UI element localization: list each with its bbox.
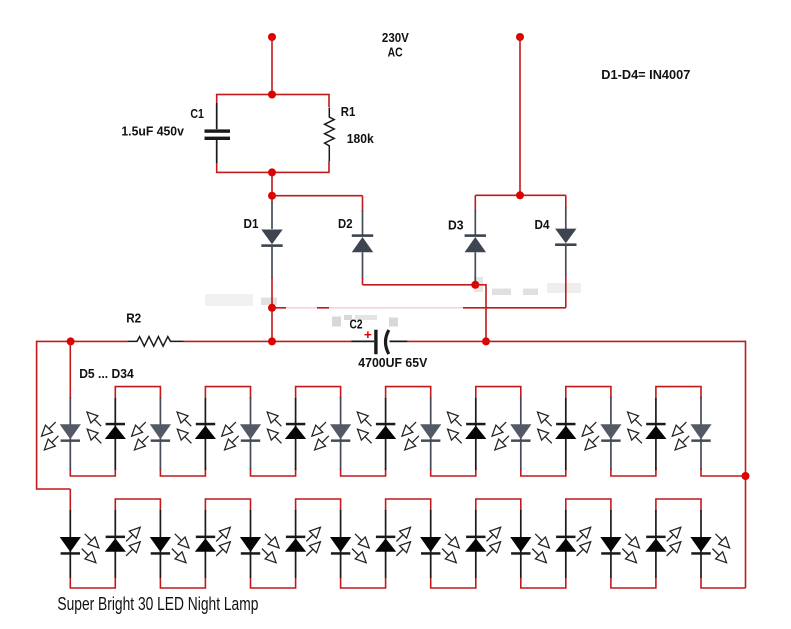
svg-text:4700UF 65V: 4700UF 65V [358, 355, 427, 370]
wire row2 top segment 11 [566, 499, 611, 511]
wire row1 top segment 13 [656, 387, 701, 399]
wire row1 feed [69, 341, 71, 399]
wire row2 bottom segment 8 [431, 578, 476, 588]
wire row2 feed top [69, 489, 71, 512]
svg-text:AC: AC [388, 44, 403, 59]
wire C1/R1 parallel box [217, 95, 329, 173]
svg-text:180k: 180k [347, 131, 375, 146]
LED D34 [690, 510, 733, 578]
wire row1 bottom segment 6 [341, 468, 386, 476]
LED D11 [308, 397, 351, 470]
LED D12 [354, 398, 396, 470]
svg-text:230V: 230V [382, 30, 409, 45]
diode D3 [465, 195, 486, 285]
wire box to bridge node [271, 172, 273, 203]
node AC terminal right [516, 33, 524, 41]
wire row2 bottom segment 2 [160, 578, 205, 588]
LED D7 [128, 397, 171, 470]
diode D2 [352, 196, 373, 279]
svg-text:Super Bright 30 LED Night Lamp: Super Bright 30 LED Night Lamp [57, 594, 258, 614]
capacitor C1 [205, 103, 231, 163]
svg-text:D1: D1 [244, 216, 259, 231]
wire row1 bottom segment 0 [70, 468, 115, 476]
node box bottom [268, 168, 276, 176]
wire main rail left [37, 340, 128, 342]
node D2/D3 junction [471, 281, 479, 289]
wire row2 top segment 1 [115, 499, 160, 511]
LED D21 [105, 510, 144, 578]
wire row2 top segment 5 [296, 499, 341, 511]
LED D22 [150, 510, 193, 578]
wire row2 top segment 3 [205, 499, 250, 511]
wire row1 top segment 1 [115, 387, 160, 399]
LED D18 [624, 398, 666, 470]
svg-text:D4: D4 [535, 217, 551, 232]
LED D17 [579, 397, 622, 470]
LED D33 [645, 510, 684, 578]
resistor R1 [325, 107, 335, 161]
wire row1 top segment 9 [476, 387, 521, 399]
node bridge top left [268, 192, 276, 200]
wire row2 bottom segment 4 [251, 578, 296, 588]
LED D23 [195, 510, 234, 578]
wire D1 to rail [271, 277, 273, 341]
wire to D2 branch [271, 195, 362, 197]
wire row1 top segment 3 [205, 387, 250, 399]
LED D26 [330, 510, 373, 578]
svg-text:D3: D3 [448, 217, 464, 232]
wire D2 bottom [362, 278, 364, 285]
capacitor C2 [351, 330, 407, 355]
LED D9 [218, 397, 261, 470]
wire row2 bottom segment 0 [70, 578, 115, 588]
wire AC right vertical [519, 37, 521, 195]
svg-text:+: + [364, 327, 372, 342]
wire D4 to lower bus [565, 275, 567, 308]
LED D15 [489, 397, 532, 470]
LED D24 [240, 510, 283, 578]
wire junction to rail [475, 284, 487, 286]
wire row1 bottom segment 2 [160, 468, 205, 476]
node AC terminal left [268, 33, 276, 41]
diode D4 [555, 195, 576, 276]
node AC right junction [516, 191, 524, 199]
wire row1 top segment 7 [386, 387, 431, 399]
LED D19 [669, 397, 712, 470]
wire main rail mid [184, 340, 352, 342]
wire left rail [37, 341, 71, 489]
wire row1 top segment 5 [296, 387, 341, 399]
svg-text:C1: C1 [190, 106, 204, 121]
wire main rail right [407, 340, 745, 342]
svg-text:1.5uF 450v: 1.5uF 450v [121, 124, 184, 139]
decorative: none [205, 277, 581, 327]
wire row1 bottom segment 8 [431, 468, 476, 476]
LED D10 [264, 398, 307, 470]
wire right rail [745, 341, 747, 588]
LED D5 [38, 397, 81, 470]
LED D27 [375, 510, 414, 578]
node box top [268, 91, 276, 99]
node D1/D4 junction [268, 304, 276, 312]
LED D25 [285, 510, 324, 578]
LED D20 [60, 510, 103, 578]
wire row2 bottom segment 6 [341, 578, 386, 588]
node rail B [268, 337, 276, 345]
svg-text:R1: R1 [341, 104, 356, 119]
svg-text:D2: D2 [338, 216, 353, 231]
wire row2 bottom segment 12 [611, 578, 656, 588]
wire row1 exit [701, 468, 746, 476]
decorative: none [286, 302, 463, 314]
diode D1 [261, 202, 282, 278]
wire row1 bottom segment 12 [611, 468, 656, 476]
node rail C [482, 337, 490, 345]
LED D6 [83, 398, 125, 470]
svg-text:R2: R2 [126, 310, 141, 325]
wire row2 top segment 13 [656, 499, 701, 511]
wire row2 bottom segment 10 [521, 578, 566, 588]
svg-text:D5 ... D34: D5 ... D34 [79, 366, 134, 381]
svg-text:D1-D4= IN4007: D1-D4= IN4007 [601, 67, 690, 82]
LED D16 [534, 398, 576, 470]
LED D30 [510, 510, 553, 578]
LED D14 [444, 398, 487, 470]
LED D8 [174, 398, 216, 470]
LED D29 [465, 510, 504, 578]
node rail A [67, 337, 75, 345]
wire row1 bottom segment 10 [521, 468, 566, 476]
wire AC left vertical [271, 37, 273, 95]
node right rail row1 [742, 472, 750, 480]
wire D3-D4 top [475, 194, 566, 196]
wire row1 top segment 11 [566, 387, 611, 399]
wire row2 exit [701, 578, 746, 588]
wire row2 top segment 7 [386, 499, 431, 511]
wire row2 top segment 9 [476, 499, 521, 511]
LED D31 [555, 510, 594, 578]
svg-text:C2: C2 [350, 316, 363, 331]
wire row1 bottom segment 4 [251, 468, 296, 476]
resistor R2 [127, 337, 183, 347]
LED D32 [600, 510, 643, 578]
LED D13 [398, 397, 441, 470]
LED D28 [420, 510, 463, 578]
